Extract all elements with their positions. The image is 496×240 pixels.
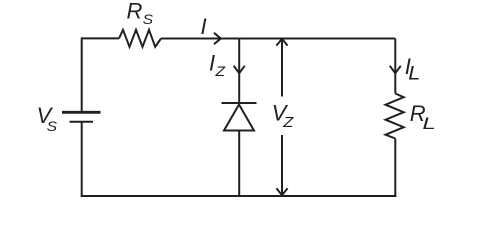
wire: zener branch upper	[238, 39, 240, 103]
wire: right upper	[394, 39, 396, 94]
zener diode DZ triangle	[224, 105, 254, 131]
svg-text:I: I	[201, 14, 207, 39]
resistor RS	[119, 30, 161, 47]
wire: top middle RS to zener branch	[161, 38, 239, 40]
wire: left lower	[81, 122, 83, 197]
svg-text:Z: Z	[282, 115, 295, 131]
svg-text:L: L	[422, 114, 435, 133]
wire: zener branch lower	[238, 131, 240, 197]
svg-text:S: S	[47, 119, 58, 134]
voltage arrow VZ line upper	[281, 40, 283, 97]
voltage arrow VZ line lower	[281, 135, 283, 195]
current arrow IZ	[234, 66, 245, 73]
wire: bottom	[81, 195, 397, 197]
svg-text:L: L	[408, 63, 420, 84]
svg-text:R: R	[127, 0, 143, 24]
wire: right lower	[394, 139, 396, 198]
svg-text:I: I	[209, 51, 215, 76]
current arrow I	[214, 33, 221, 44]
current arrow IL	[390, 66, 401, 73]
svg-text:Z: Z	[214, 65, 226, 80]
wire: left upper + top-left corner to RS	[82, 38, 119, 111]
battery VS short plate	[70, 121, 94, 123]
voltage arrow VZ head down	[276, 188, 287, 195]
resistor RL	[386, 94, 404, 139]
battery VS long plate	[62, 111, 101, 114]
voltage arrow VZ head up	[276, 39, 287, 46]
svg-text:S: S	[143, 13, 154, 28]
zener diode DZ cathode bar	[222, 102, 257, 104]
wire: top right zener branch to right corner	[239, 38, 395, 40]
